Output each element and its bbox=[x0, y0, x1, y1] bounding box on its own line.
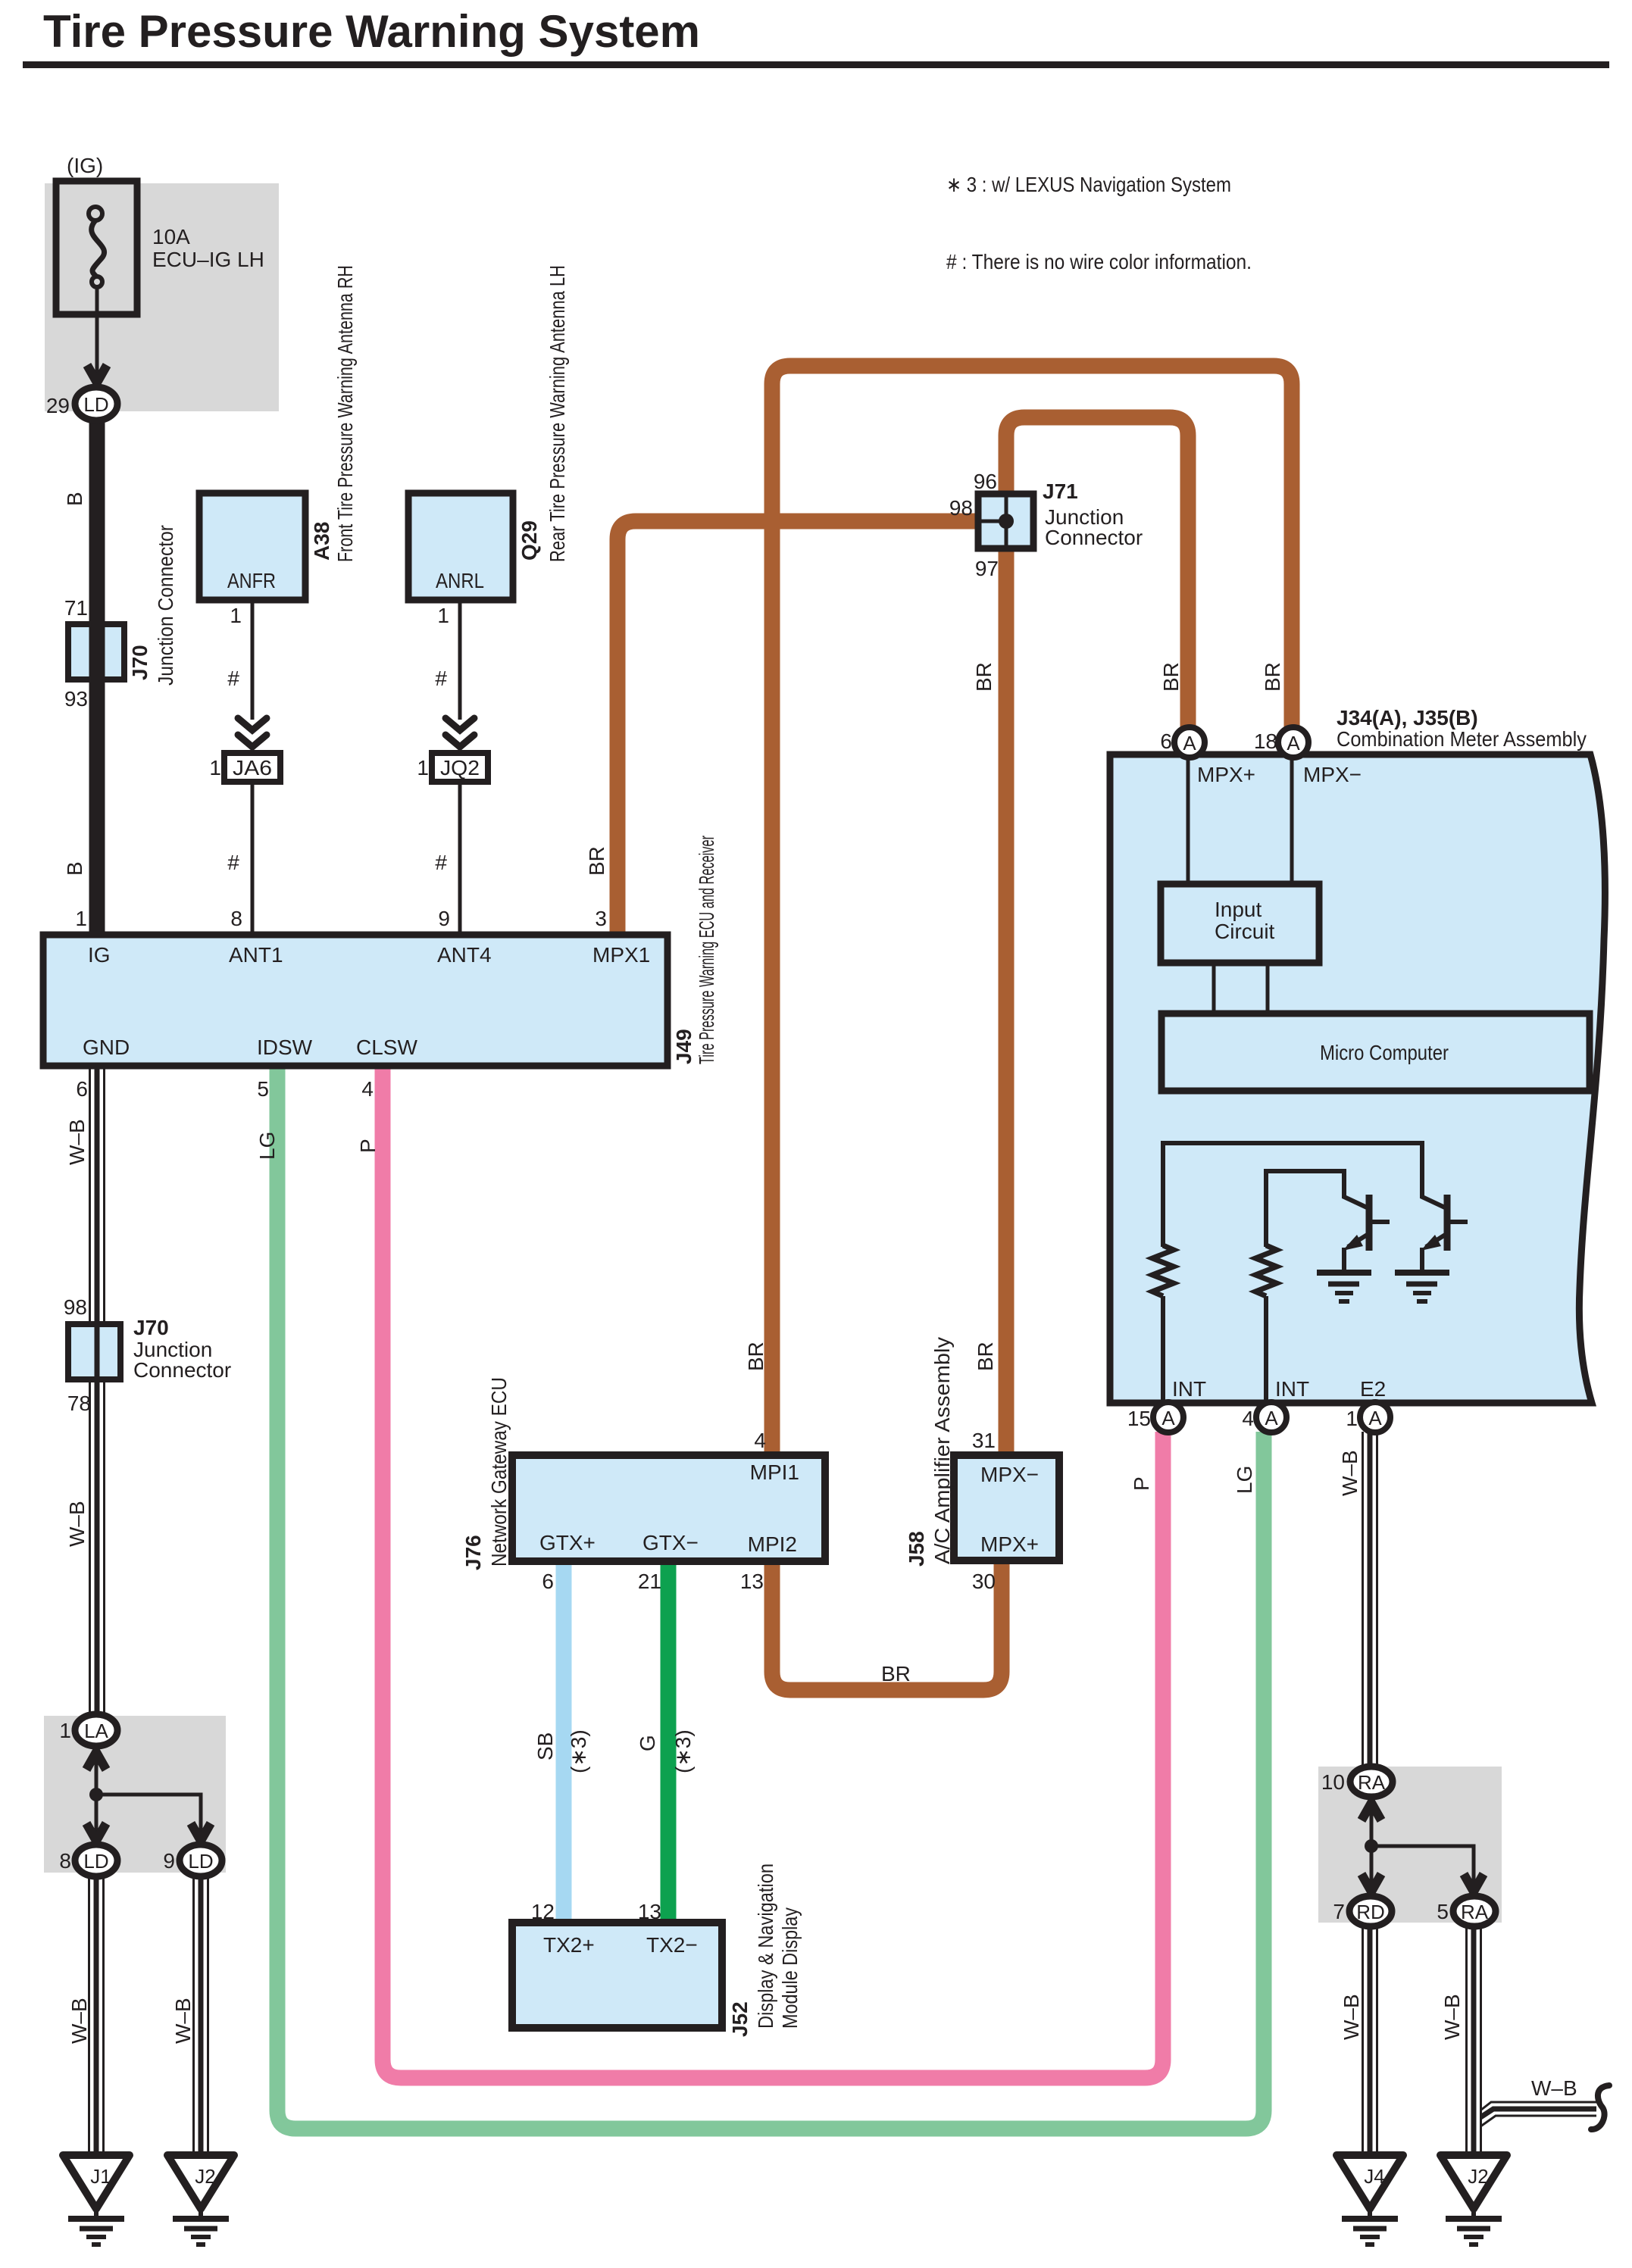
svg-text:Tire Pressure Warning System: Tire Pressure Warning System bbox=[43, 6, 700, 57]
connector chevrons JQ2 bbox=[446, 718, 474, 747]
svg-text:J52: J52 bbox=[728, 2001, 752, 2037]
arrow into pin 29 bbox=[87, 365, 107, 383]
svg-text:29: 29 bbox=[46, 394, 70, 417]
ground J2 right bbox=[1440, 2155, 1507, 2245]
svg-text:J2: J2 bbox=[1468, 2165, 1488, 2188]
connector JQ2 box bbox=[432, 753, 488, 782]
svg-text:A: A bbox=[1183, 732, 1196, 754]
svg-text:5: 5 bbox=[1437, 1900, 1449, 1923]
svg-text:Tire Pressure Warning ECU and: Tire Pressure Warning ECU and Receiver bbox=[695, 836, 718, 1064]
junction dot bottom-right bbox=[1365, 1839, 1378, 1853]
svg-text:ANRL: ANRL bbox=[436, 569, 484, 592]
svg-text:6: 6 bbox=[1160, 729, 1172, 753]
svg-text:GND: GND bbox=[83, 1036, 130, 1059]
wire LA to LD junction bbox=[95, 1746, 98, 1846]
harness gray box (IG) top-left bbox=[45, 183, 279, 411]
wire JA6 to J49 ANT1 pin 8 bbox=[251, 782, 255, 935]
svg-text:W–B: W–B bbox=[171, 1998, 195, 2044]
wire W-B: RD 7 down to ground J4 bbox=[1363, 1924, 1377, 2155]
svg-text:G: G bbox=[636, 1735, 659, 1751]
svg-text:W–B: W–B bbox=[65, 1501, 89, 1547]
svg-text:A: A bbox=[1368, 1407, 1382, 1429]
antenna Q29 ANRL box bbox=[408, 493, 513, 600]
svg-text:A: A bbox=[1265, 1407, 1278, 1429]
antenna A38 ANFR box bbox=[199, 493, 305, 600]
svg-text:1: 1 bbox=[230, 604, 242, 627]
ground J2 left bbox=[167, 2155, 234, 2245]
svg-text:10A: 10A bbox=[152, 225, 190, 248]
wire break squiggle bbox=[1591, 2085, 1609, 2129]
svg-text:MPX−: MPX− bbox=[980, 1463, 1039, 1486]
svg-text:21: 21 bbox=[638, 1570, 661, 1593]
svg-text:3: 3 bbox=[595, 907, 607, 930]
svg-text:78: 78 bbox=[67, 1392, 91, 1415]
wire W-B: LD 9 down to ground J2 left bbox=[194, 1874, 208, 2155]
svg-text:BR: BR bbox=[585, 846, 608, 876]
svg-text:12: 12 bbox=[531, 1900, 555, 1923]
svg-text:P: P bbox=[356, 1139, 380, 1153]
internal wire net INT15 to Q2 base bbox=[1163, 1143, 1445, 1247]
connector chevrons JA6 bbox=[238, 718, 267, 747]
svg-text:E2: E2 bbox=[1360, 1377, 1386, 1401]
svg-text:BR: BR bbox=[972, 662, 996, 692]
connector oval 7 RD bbox=[1349, 1896, 1392, 1926]
wire RA to RD junction bbox=[1370, 1797, 1374, 1898]
arrow up into RA 10 bbox=[1362, 1803, 1381, 1820]
svg-text:6: 6 bbox=[76, 1077, 88, 1101]
svg-text:P: P bbox=[1130, 1476, 1153, 1491]
svg-text:#: # bbox=[227, 667, 239, 690]
svg-text:MPX1: MPX1 bbox=[592, 943, 650, 967]
wire MPX- to input circuit bbox=[1290, 758, 1294, 884]
junction connector J70 upper (71/93) bbox=[68, 624, 124, 679]
wire P: J49 CLSW pin 4 down, right, up to meter INT circle A15 bbox=[383, 1066, 1163, 2078]
svg-text:GTX−: GTX− bbox=[642, 1531, 699, 1554]
transistor Q1 bbox=[1343, 1195, 1390, 1273]
svg-text:W–B: W–B bbox=[1338, 1450, 1362, 1496]
svg-text:1: 1 bbox=[209, 756, 221, 779]
ECU J49 box bbox=[43, 935, 667, 1066]
svg-text:BR: BR bbox=[881, 1662, 911, 1685]
connector oval 8 LD bbox=[75, 1845, 117, 1876]
arrow down to RD 7 bbox=[1362, 1874, 1381, 1892]
svg-text:IG: IG bbox=[88, 943, 111, 967]
meter circle A18 MPX- bbox=[1278, 727, 1308, 758]
svg-text:J4: J4 bbox=[1364, 2165, 1384, 2188]
svg-text:96: 96 bbox=[974, 470, 997, 493]
svg-text:MPI1: MPI1 bbox=[750, 1460, 799, 1484]
svg-text:8: 8 bbox=[230, 907, 242, 930]
svg-text:J58: J58 bbox=[905, 1531, 928, 1567]
ground Q1 bbox=[1317, 1273, 1371, 1301]
svg-text:J76: J76 bbox=[461, 1535, 485, 1570]
svg-text:J2: J2 bbox=[195, 2165, 215, 2188]
wire W-B: J49 GND pin 6 down to LA connector bbox=[90, 1066, 105, 1716]
svg-text:B: B bbox=[63, 492, 86, 506]
wire BR: J49 MPX1 pin 3 up to J71 pin 98 bbox=[617, 521, 978, 935]
wire branch to RA 5 bbox=[1371, 1846, 1474, 1898]
network gateway ECU J76 box bbox=[512, 1455, 825, 1561]
svg-text:J70: J70 bbox=[128, 645, 152, 680]
svg-text:Circuit: Circuit bbox=[1215, 920, 1275, 943]
svg-text:#: # bbox=[227, 851, 239, 874]
svg-text:#: # bbox=[435, 667, 447, 690]
svg-text:(∗3): (∗3) bbox=[567, 1729, 590, 1773]
wire W-B: meter E2 circle A1 down to RA 10 bbox=[1363, 1432, 1377, 1768]
ground J1 bbox=[63, 2155, 130, 2245]
svg-text:9: 9 bbox=[163, 1849, 175, 1873]
svg-text:BR: BR bbox=[974, 1342, 997, 1371]
svg-text:18: 18 bbox=[1254, 729, 1277, 753]
internal wire net INT4 to Q1 base bbox=[1266, 1171, 1367, 1247]
arrow down to LD 9 bbox=[191, 1823, 211, 1841]
svg-text:A/C Amplifier Assembly: A/C Amplifier Assembly bbox=[930, 1337, 954, 1564]
svg-text:INT: INT bbox=[1275, 1377, 1309, 1401]
svg-text:BR: BR bbox=[744, 1342, 768, 1371]
svg-text:Junction Connector: Junction Connector bbox=[154, 525, 177, 686]
wire BR: J76 MPI2 pin 13 down, right, up to J58 MPX+ pin 30 bbox=[772, 1560, 1002, 1690]
svg-text:BR: BR bbox=[1261, 662, 1284, 692]
svg-text:A: A bbox=[1287, 732, 1300, 754]
svg-text:Module Display: Module Display bbox=[778, 1907, 802, 2029]
wires input circuit to micro computer bbox=[1212, 963, 1216, 1014]
wire JQ2 to J49 ANT4 pin 9 bbox=[458, 782, 462, 935]
wire B: fuse LD to J49 IG pin 1 bbox=[89, 418, 105, 935]
meter circle A6 MPX+ bbox=[1174, 727, 1205, 758]
svg-text:ANFR: ANFR bbox=[227, 569, 276, 592]
svg-text:RD: RD bbox=[1356, 1901, 1385, 1923]
arrow down to RA 5 bbox=[1464, 1874, 1483, 1892]
wire W-B: RA 5 down to ground J2 right bbox=[1467, 1924, 1481, 2155]
wire R1 to INT pin 15 bbox=[1161, 1296, 1165, 1403]
input circuit box bbox=[1161, 884, 1319, 963]
svg-text:1: 1 bbox=[437, 604, 449, 627]
harness gray box bottom-right bbox=[1318, 1767, 1502, 1923]
svg-text:31: 31 bbox=[972, 1429, 996, 1452]
A/C amplifier assembly J58 box bbox=[954, 1455, 1059, 1560]
wire BR: J71 pin 96 up, right, down to meter MPX+ circle A6 bbox=[1006, 417, 1188, 729]
svg-text:1: 1 bbox=[417, 756, 429, 779]
svg-text:J71: J71 bbox=[1043, 480, 1078, 503]
svg-text:IDSW: IDSW bbox=[257, 1036, 313, 1059]
svg-text:1: 1 bbox=[1346, 1407, 1358, 1430]
svg-text:6: 6 bbox=[542, 1570, 554, 1593]
connector oval 29 LD bbox=[75, 387, 117, 420]
svg-text:Input: Input bbox=[1215, 898, 1262, 921]
svg-text:#: # bbox=[435, 851, 447, 874]
wire W-B: LD 8 down to ground J1 bbox=[89, 1874, 104, 2155]
svg-text:4: 4 bbox=[1242, 1407, 1254, 1430]
title underline bbox=[23, 61, 1609, 68]
svg-text:∗ 3 : w/ LEXUS Navigation Syst: ∗ 3 : w/ LEXUS Navigation System bbox=[946, 173, 1231, 196]
svg-text:RA: RA bbox=[1461, 1901, 1489, 1923]
fuse 10A ECU-IG LH bbox=[56, 181, 137, 385]
svg-text:ANT1: ANT1 bbox=[229, 943, 283, 967]
svg-text:8: 8 bbox=[59, 1849, 71, 1873]
wire LG: J49 IDSW pin 5 down, right, up to meter INT circle A4 bbox=[277, 1066, 1264, 2129]
svg-text:MPX+: MPX+ bbox=[1197, 763, 1255, 786]
svg-text:TX2+: TX2+ bbox=[543, 1933, 595, 1957]
svg-text:TX2−: TX2− bbox=[646, 1933, 698, 1957]
connector JA6 box bbox=[224, 753, 280, 782]
wire ANRL pin 1 to JQ2 bbox=[458, 600, 462, 720]
svg-text:J70: J70 bbox=[133, 1316, 169, 1339]
svg-text:(∗3): (∗3) bbox=[671, 1729, 695, 1773]
ground Q2 bbox=[1395, 1273, 1449, 1301]
svg-text:98: 98 bbox=[64, 1295, 87, 1319]
svg-text:GTX+: GTX+ bbox=[539, 1531, 596, 1554]
svg-text:10: 10 bbox=[1321, 1770, 1345, 1794]
svg-text:Display & Navigation: Display & Navigation bbox=[754, 1863, 777, 2029]
connector oval 1 LA bbox=[75, 1714, 117, 1746]
svg-text:LA: LA bbox=[84, 1720, 108, 1742]
junction dot bottom-left bbox=[89, 1788, 103, 1801]
svg-text:(IG): (IG) bbox=[67, 154, 103, 177]
wire G: J76 GTX- pin 21 to J52 TX2- pin 13 bbox=[661, 1561, 677, 1923]
svg-text:A: A bbox=[1161, 1407, 1175, 1429]
junction connector J70 lower (98/78) bbox=[68, 1324, 120, 1379]
wire branch to LD 9 bbox=[96, 1795, 201, 1846]
meter circle A15 INT bbox=[1153, 1402, 1183, 1432]
svg-text:Connector: Connector bbox=[1045, 526, 1143, 549]
svg-text:LD: LD bbox=[188, 1850, 213, 1873]
svg-text:W–B: W–B bbox=[67, 1998, 91, 2044]
arrow down to LD 8 bbox=[86, 1823, 106, 1841]
svg-text:J49: J49 bbox=[672, 1029, 696, 1064]
svg-text:Rear Tire Pressure Warning Ant: Rear Tire Pressure Warning Antenna LH bbox=[546, 265, 569, 562]
svg-text:LG: LG bbox=[1233, 1466, 1256, 1494]
svg-text:J34(A), J35(B): J34(A), J35(B) bbox=[1337, 706, 1478, 729]
svg-text:ECU–IG LH: ECU–IG LH bbox=[152, 248, 264, 271]
svg-text:LD: LD bbox=[83, 393, 108, 416]
resistor R2 bbox=[1255, 1245, 1277, 1296]
svg-text:LG: LG bbox=[255, 1132, 279, 1160]
svg-text:ANT4: ANT4 bbox=[437, 943, 492, 967]
svg-text:7: 7 bbox=[1333, 1900, 1345, 1923]
svg-text:5: 5 bbox=[257, 1077, 269, 1101]
svg-text:4: 4 bbox=[754, 1429, 766, 1452]
svg-text:MPX+: MPX+ bbox=[980, 1532, 1039, 1556]
arrow up into LA bbox=[86, 1752, 106, 1770]
ground J4 bbox=[1337, 2155, 1403, 2245]
micro computer box bbox=[1161, 1014, 1590, 1091]
wire BR: J71 pin 97 down to J58 MPX- pin 31 bbox=[999, 548, 1015, 1455]
svg-text:4: 4 bbox=[361, 1077, 374, 1101]
connector oval 10 RA bbox=[1350, 1767, 1393, 1797]
svg-text:JA6: JA6 bbox=[233, 756, 272, 779]
svg-text:CLSW: CLSW bbox=[356, 1036, 417, 1059]
wire MPX+ to input circuit bbox=[1186, 758, 1190, 884]
svg-text:Network Gateway ECU: Network Gateway ECU bbox=[487, 1377, 511, 1567]
svg-text:MPI2: MPI2 bbox=[748, 1532, 797, 1556]
wire ANFR pin 1 to JA6 bbox=[251, 600, 255, 720]
svg-text:30: 30 bbox=[972, 1570, 996, 1593]
svg-text:B: B bbox=[63, 861, 86, 876]
svg-text:W–B: W–B bbox=[1340, 1994, 1363, 2040]
meter circle A4 INT bbox=[1256, 1402, 1287, 1432]
connector oval 9 LD bbox=[180, 1845, 222, 1876]
svg-text:Front Tire Pressure Warning An: Front Tire Pressure Warning Antenna RH bbox=[333, 265, 357, 562]
svg-text:71: 71 bbox=[64, 596, 88, 620]
meter circle A1 E2 bbox=[1360, 1402, 1390, 1432]
harness gray box bottom-left bbox=[44, 1716, 226, 1873]
svg-text:LD: LD bbox=[83, 1850, 108, 1873]
svg-text:JQ2: JQ2 bbox=[440, 756, 480, 779]
svg-text:13: 13 bbox=[740, 1570, 764, 1593]
svg-text:SB: SB bbox=[533, 1732, 557, 1760]
wire SB: J76 GTX+ pin 6 to J52 TX2+ pin 12 bbox=[556, 1561, 572, 1923]
svg-text:9: 9 bbox=[438, 907, 450, 930]
svg-text:Combination Meter Assembly: Combination Meter Assembly bbox=[1337, 727, 1587, 751]
display & navigation module display J52 box bbox=[512, 1923, 722, 2028]
svg-text:A38: A38 bbox=[310, 522, 333, 561]
svg-text:# : There is no wire color inf: # : There is no wire color information. bbox=[946, 250, 1252, 273]
svg-text:13: 13 bbox=[638, 1900, 661, 1923]
svg-text:93: 93 bbox=[64, 687, 88, 711]
svg-text:Micro Computer: Micro Computer bbox=[1320, 1041, 1449, 1064]
svg-text:1: 1 bbox=[75, 907, 87, 930]
svg-text:BR: BR bbox=[1159, 662, 1183, 692]
svg-text:15: 15 bbox=[1127, 1407, 1151, 1430]
svg-text:97: 97 bbox=[975, 557, 999, 580]
transistor Q2 bbox=[1421, 1195, 1468, 1273]
svg-text:RA: RA bbox=[1358, 1771, 1386, 1794]
svg-text:W–B: W–B bbox=[1531, 2076, 1577, 2100]
wire W-B: branch to right with break mark bbox=[1476, 2102, 1596, 2129]
connector oval 5 RA bbox=[1453, 1896, 1496, 1926]
resistor R1 bbox=[1152, 1245, 1174, 1296]
combination meter assembly J34(A) J35(B) box bbox=[1110, 754, 1605, 1403]
svg-text:MPX−: MPX− bbox=[1303, 763, 1362, 786]
junction connector J71 box bbox=[978, 494, 1033, 548]
svg-text:Q29: Q29 bbox=[517, 520, 541, 561]
svg-text:INT: INT bbox=[1172, 1377, 1206, 1401]
svg-text:W–B: W–B bbox=[1440, 1994, 1464, 2040]
svg-text:J1: J1 bbox=[90, 2165, 111, 2188]
svg-text:Connector: Connector bbox=[133, 1358, 231, 1382]
wire R2 to INT pin 4 bbox=[1264, 1296, 1268, 1403]
svg-text:W–B: W–B bbox=[65, 1119, 89, 1165]
wire BR: J76 MPI1 pin 4 up, right, down to meter MPX- circle A18 bbox=[772, 366, 1292, 1455]
svg-text:1: 1 bbox=[59, 1719, 71, 1742]
svg-text:98: 98 bbox=[949, 496, 973, 520]
